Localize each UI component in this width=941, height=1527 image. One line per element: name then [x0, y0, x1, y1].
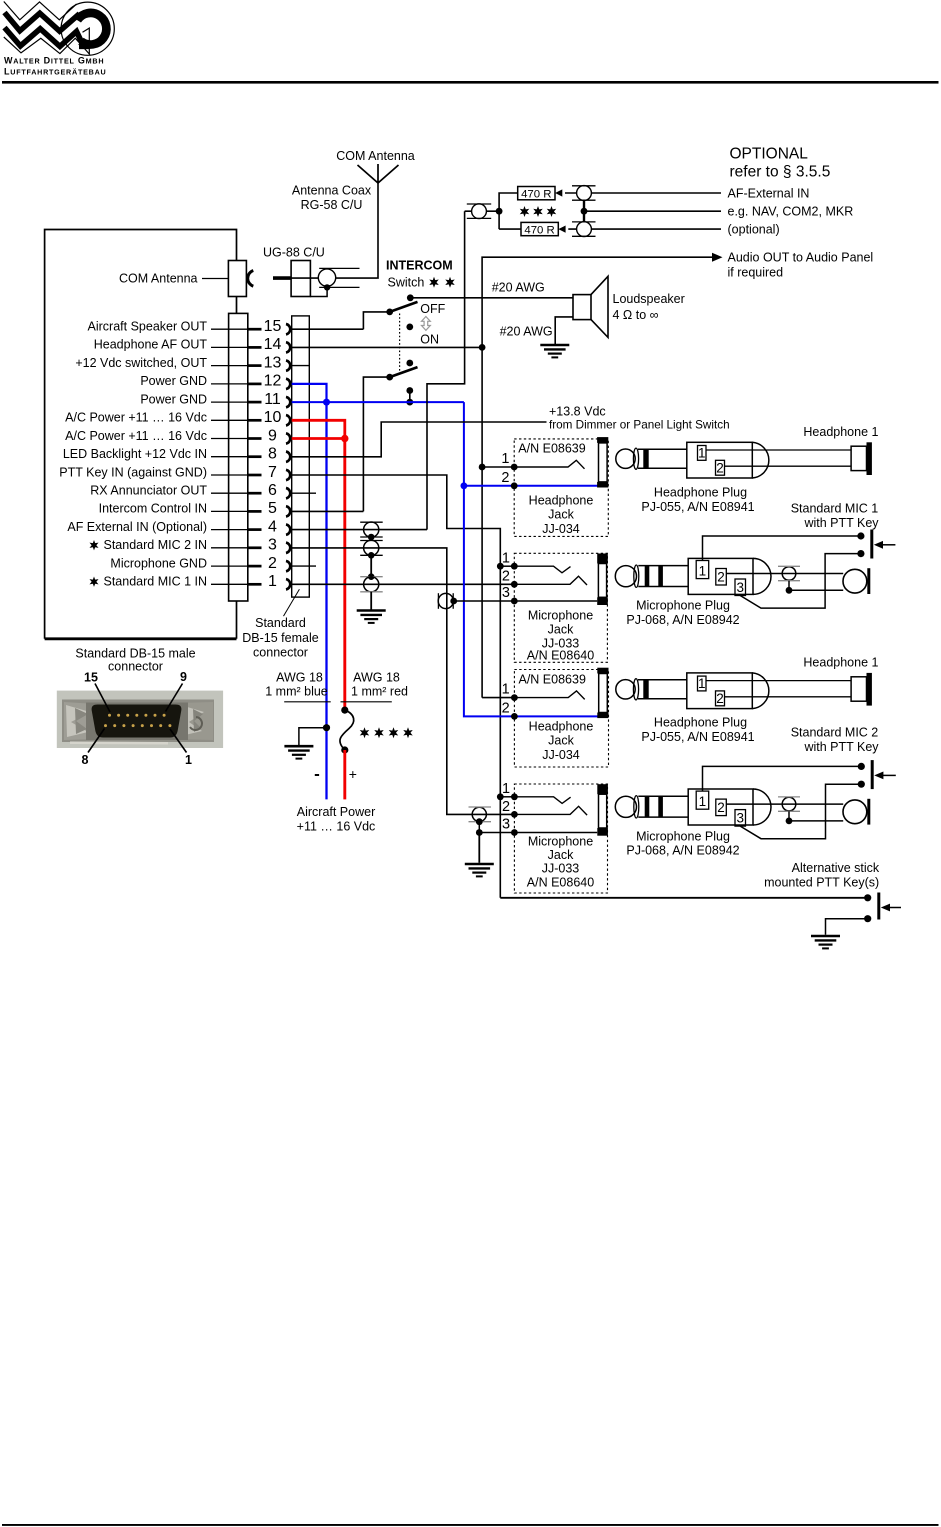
470R node feedthrough circle — [472, 204, 487, 219]
pin 14 socket arc — [286, 342, 290, 352]
PTT key 2 upper dot — [858, 763, 865, 770]
MJ2 ground junction dot — [476, 829, 483, 836]
pin 6 socket arc — [286, 488, 290, 498]
svg-text:PJ-055, A/N E08941: PJ-055, A/N E08941 — [641, 730, 754, 744]
pin 3 socket arc — [286, 543, 290, 553]
lower AF wire with feedthrough — [568, 228, 721, 230]
MP2 pin3 wire to PTT — [740, 784, 861, 839]
mic cap plates — [778, 565, 800, 567]
MP1 body cap — [753, 558, 771, 594]
svg-text:9: 9 — [180, 670, 187, 684]
svg-text:Microphone: Microphone — [528, 609, 593, 623]
MP2 shaft — [638, 796, 688, 817]
svg-text:INTERCOM: INTERCOM — [386, 258, 453, 272]
svg-text:Audio OUT to Audio Panel: Audio OUT to Audio Panel — [728, 251, 874, 265]
svg-text:connector: connector — [108, 660, 163, 674]
pin 3 wire down to mic jack 2 — [292, 548, 515, 815]
audio bus junction dot — [479, 464, 486, 471]
pin 13 socket arc — [286, 360, 290, 370]
headphone plug P1 tip — [616, 449, 635, 468]
UG-88 feedthrough circle — [318, 269, 335, 286]
svg-text:Headphone Plug: Headphone Plug — [654, 485, 747, 499]
PTT key 2 press arrow — [882, 774, 895, 776]
resistor lower 470R box — [521, 222, 558, 235]
AF mid wire to right — [584, 210, 721, 212]
pin 12 male pin tick — [248, 383, 262, 386]
svg-text:7: 7 — [268, 464, 277, 481]
svg-text:with PTT Key: with PTT Key — [803, 516, 879, 530]
svg-text:15: 15 — [84, 670, 98, 684]
svg-text:2: 2 — [502, 569, 510, 585]
P1 cord wire 2 — [725, 465, 852, 467]
svg-text:A/N E08640: A/N E08640 — [527, 648, 594, 662]
mic cap circle — [782, 567, 796, 581]
alt PTT ground symbol — [811, 936, 840, 948]
P1 body — [687, 442, 753, 478]
svg-text:2: 2 — [717, 570, 725, 585]
pin 1 male pin tick — [248, 583, 262, 586]
J1 pin 2 contact dot — [511, 482, 518, 489]
svg-text:JJ-033: JJ-033 — [542, 862, 580, 876]
MJ2 pin 3 contact dot — [511, 829, 518, 836]
MP1 ring bands — [645, 566, 650, 587]
svg-text:PTT Key IN (against GND): PTT Key IN (against GND) — [59, 465, 207, 479]
PTT key 1 press arrow — [882, 544, 895, 546]
svg-text:470 R: 470 R — [521, 189, 551, 201]
svg-text:LED Backlight +12 Vdc IN: LED Backlight +12 Vdc IN — [63, 447, 207, 461]
470R branch wires — [499, 193, 521, 229]
svg-text:Headphone: Headphone — [529, 493, 594, 507]
pin 2 male pin tick — [248, 565, 262, 568]
audio node junction dot — [479, 344, 486, 351]
svg-text:Jack: Jack — [548, 623, 574, 637]
logo thick W zigzag 2 — [5, 28, 82, 47]
switch mechanical link (dotted) — [399, 314, 401, 374]
J2 sleeve bottom cap — [597, 713, 608, 719]
MJ2 ground symbol — [465, 864, 494, 876]
J2 sleeve top cap — [597, 668, 608, 674]
header rule — [2, 81, 939, 84]
microphone plug MP2 tip — [615, 796, 636, 817]
pin 10 socket arc — [286, 415, 290, 425]
antenna coax vertical wire — [377, 183, 379, 278]
pin 2 leader line — [211, 565, 248, 567]
audio out arrowhead — [712, 253, 723, 262]
svg-text:Loudspeaker: Loudspeaker — [613, 292, 685, 306]
svg-text:OFF: OFF — [420, 302, 445, 316]
logo thin bottom zigzag — [4, 37, 90, 55]
svg-text:COM Antenna: COM Antenna — [119, 272, 198, 286]
microphone 2 capsule — [843, 800, 867, 824]
wire PTT bus to MJ2 pin 1 — [500, 796, 514, 798]
pin3 cap lower plate — [360, 554, 383, 556]
svg-text:if required: if required — [728, 266, 784, 280]
blue ground bus down to power — [325, 402, 327, 799]
svg-text:A/N E08639: A/N E08639 — [519, 673, 586, 687]
svg-text:12: 12 — [264, 373, 282, 390]
pin 5 male pin tick — [248, 510, 262, 513]
alt PTT button bar — [877, 893, 880, 920]
red wire below fuse — [343, 750, 346, 799]
logo thin outer circle (D outline) — [61, 2, 114, 55]
MP1 tip ring — [634, 565, 639, 587]
P2 insulator band — [643, 680, 648, 699]
P2 tip ring — [633, 679, 638, 700]
MP2 body — [688, 789, 753, 825]
svg-text:Headphone AF OUT: Headphone AF OUT — [94, 338, 208, 352]
pin 12 socket arc — [286, 379, 290, 389]
MJ2 pin 2 spring contact — [514, 806, 587, 815]
J1 sleeve bottom cap — [597, 482, 608, 488]
pin 1 leader line — [211, 583, 248, 585]
svg-text:AWG 18: AWG 18 — [276, 671, 323, 685]
P2 cord wire 1 — [706, 680, 851, 682]
upper AF feedthrough circle — [577, 186, 592, 201]
pin 4 riser to 470R node — [427, 211, 465, 529]
pin 15 wire to switch — [292, 328, 364, 330]
DB-15 photo shell shadow — [86, 703, 188, 741]
P2 terminal 2 box — [716, 691, 725, 706]
P2 body cap — [752, 673, 769, 709]
pin 15 male pin tick — [248, 328, 262, 331]
PTT key 1 upper dot — [857, 532, 864, 539]
male connector strip — [229, 313, 248, 601]
svg-text:9: 9 — [268, 427, 277, 444]
MJ2 feedthrough capacitor on MIC2 bus — [472, 807, 486, 821]
pin3 cap upper plate — [360, 540, 383, 542]
COM antenna connector mating arc — [248, 271, 254, 287]
power ground wire — [299, 728, 327, 745]
J1 sleeve body — [599, 443, 608, 482]
pin 8 leader line — [211, 456, 248, 458]
logo thick D ring — [77, 13, 106, 45]
microphone 1 capsule — [843, 569, 867, 593]
4 stars fuse note — [360, 727, 370, 738]
MJ1 cap tap dot — [450, 598, 457, 605]
svg-text:Standard MIC 2 IN: Standard MIC 2 IN — [103, 538, 207, 552]
MJ2 pin 1 contact dot — [511, 793, 518, 800]
MP1 terminal 3 box — [735, 579, 746, 596]
pole 2 ON contact dot — [406, 387, 413, 394]
svg-text:LUFTFAHRTGERÄTEBAU: LUFTFAHRTGERÄTEBAU — [4, 67, 106, 77]
svg-text:1 mm² red: 1 mm² red — [351, 685, 408, 699]
svg-text:15: 15 — [264, 318, 282, 335]
MJ1 pin 3 contact dot — [511, 598, 518, 605]
svg-text:RG-58 C/U: RG-58 C/U — [301, 198, 363, 212]
wire audio bus to J2 pin 1 — [482, 697, 514, 699]
pole 2 OFF contact dot — [406, 360, 413, 367]
pin 7 wire to PTT bus — [292, 475, 501, 898]
microphone 1 plate — [867, 568, 870, 594]
logo D inner notch — [83, 28, 90, 54]
MJ1 sleeve bottom cap — [597, 597, 608, 605]
MJ2 sleeve bottom cap — [597, 828, 608, 836]
intercom switch pole 2 lever — [390, 367, 418, 377]
svg-text:3: 3 — [736, 580, 744, 595]
svg-text:refer to § 3.5.5: refer to § 3.5.5 — [730, 164, 831, 181]
headphone jack J1 dashed box — [514, 439, 608, 537]
svg-text:#20 AWG: #20 AWG — [500, 324, 553, 338]
svg-text:Microphone GND: Microphone GND — [110, 556, 207, 570]
junction dot on blue bus — [406, 399, 413, 406]
svg-text:Headphone 1: Headphone 1 — [803, 425, 878, 439]
pin 3 leader line — [211, 547, 248, 549]
svg-text:1: 1 — [699, 564, 707, 579]
svg-text:A/C Power +11 … 16 Vdc: A/C Power +11 … 16 Vdc — [65, 429, 207, 443]
pin 3 male pin tick — [248, 546, 262, 549]
470R node plate lines — [467, 203, 491, 205]
svg-text:13: 13 — [264, 354, 282, 371]
loudspeaker horn — [591, 276, 608, 337]
DB-15 photo bracket plates — [64, 702, 96, 740]
MP1 pin3 wire to PTT — [740, 554, 861, 609]
svg-text:Power GND: Power GND — [140, 392, 207, 406]
fuse S-curve — [340, 710, 354, 750]
PTT key 2 lower dot — [858, 781, 865, 788]
svg-text:10: 10 — [264, 409, 282, 426]
svg-text:A/N E08640: A/N E08640 — [527, 875, 594, 889]
pin1 cap lower plate — [360, 591, 383, 593]
svg-text:6: 6 — [268, 482, 277, 499]
photo leader 15 — [95, 684, 110, 713]
svg-text:Jack: Jack — [548, 734, 574, 748]
red power bus down — [343, 439, 346, 711]
pin 1 wire to mic jack 1 — [292, 583, 515, 585]
svg-text:Standard: Standard — [255, 616, 306, 630]
P1 tip ring — [633, 448, 638, 469]
pin 9 male pin tick — [248, 437, 262, 440]
power ground symbol — [284, 746, 313, 758]
svg-text:JJ-034: JJ-034 — [542, 522, 580, 536]
mic 2 cap tap dot — [786, 818, 793, 825]
J1 sleeve top cap — [597, 437, 608, 443]
P2 terminal 1 box — [698, 676, 707, 691]
pin 1 label star — [89, 576, 98, 586]
svg-text:Switch: Switch — [388, 276, 425, 290]
PTT bus junction dot at MJ2 — [497, 793, 504, 800]
MJ1 pin 1 break contact — [514, 566, 570, 573]
logo thick W zigzag 1 — [5, 13, 80, 32]
wire cap tap to MJ1 pin 3 — [454, 600, 598, 602]
wire PTT bus to MJ1 pin 1 — [500, 565, 514, 567]
svg-text:Aircraft Power: Aircraft Power — [297, 805, 376, 819]
headphone jack J2 dashed box — [514, 670, 608, 768]
MP1 terminal 2 box — [716, 569, 727, 586]
470R node junction dot — [496, 208, 503, 215]
DB-15 photo background — [57, 691, 223, 748]
MJ1 feedthrough capacitor on MIC2 bus — [438, 593, 453, 608]
svg-text:with PTT Key: with PTT Key — [803, 740, 879, 754]
svg-text:1: 1 — [699, 794, 707, 809]
cap chain ground — [357, 611, 386, 623]
mic 2 return wire — [789, 820, 843, 822]
pin4 cap shield dot — [368, 534, 375, 541]
svg-text:2: 2 — [502, 700, 510, 716]
svg-text:e.g. NAV, COM2, MKR: e.g. NAV, COM2, MKR — [728, 205, 854, 219]
svg-text:3: 3 — [502, 817, 510, 833]
svg-text:OPTIONAL: OPTIONAL — [730, 146, 809, 163]
J2 sleeve body — [599, 674, 608, 713]
pin 3 label star — [89, 540, 98, 550]
MP1 shaft — [638, 566, 688, 587]
MP2 tip ring — [634, 796, 639, 818]
blue bus junction dot at J1 — [461, 482, 468, 489]
lower arrowhead into resistor — [558, 226, 565, 233]
pin 7 socket arc — [286, 470, 290, 480]
audio bus down to headphone jacks — [481, 347, 483, 697]
pole 1 hinge dot — [386, 309, 393, 316]
svg-text:AF-External IN: AF-External IN — [728, 187, 810, 201]
pin 7 male pin tick — [248, 474, 262, 477]
svg-text:3: 3 — [268, 537, 277, 554]
svg-text:PJ-068, A/N E08942: PJ-068, A/N E08942 — [626, 843, 739, 857]
svg-text:1: 1 — [698, 446, 706, 461]
microphone plug MP1 tip — [615, 566, 636, 587]
P2 body — [687, 673, 753, 709]
MJ2 pin 1 break contact — [514, 797, 570, 804]
pin 10 male pin tick — [248, 419, 262, 422]
svg-text:Headphone 1: Headphone 1 — [803, 655, 878, 669]
svg-text:mounted PTT Key(s): mounted PTT Key(s) — [764, 876, 879, 890]
svg-text:WALTER DITTEL GMBH: WALTER DITTEL GMBH — [4, 56, 104, 66]
svg-text:Microphone Plug: Microphone Plug — [636, 829, 730, 843]
svg-text:5: 5 — [268, 500, 277, 517]
svg-text:AWG 18: AWG 18 — [353, 671, 400, 685]
svg-text:1: 1 — [501, 451, 509, 467]
loudspeaker return wire — [555, 317, 573, 344]
pin1 cap upper plate — [360, 576, 383, 578]
pin 2 stub wire — [292, 565, 316, 567]
P1 body cap — [752, 442, 769, 478]
pin 14 male pin tick — [248, 346, 262, 349]
up-down arrow glyph — [422, 317, 431, 331]
wire switch pole1 OFF to loudspeaker — [410, 297, 573, 299]
wire to MJ2 pin 3 — [479, 832, 597, 834]
mic 2 cap plates — [778, 796, 800, 798]
mic cap tap dot — [786, 587, 793, 594]
svg-text:2: 2 — [502, 799, 510, 815]
svg-text:DB-15 female: DB-15 female — [242, 631, 318, 645]
P2 cord wire 2 — [725, 696, 852, 698]
intercom switch pole 1 lever — [390, 302, 418, 312]
microphone jack MJ1 dashed box — [514, 553, 607, 662]
alternative PTT feed wire — [500, 897, 867, 899]
J1 pin 1 contact dot — [511, 464, 518, 471]
3 stars between resistors — [520, 206, 530, 217]
P1 shaft — [638, 449, 687, 468]
MP1 body — [688, 558, 753, 594]
svg-text:AF External IN (Optional): AF External IN (Optional) — [67, 520, 207, 534]
upper AF plate lines — [572, 185, 596, 187]
svg-text:Microphone: Microphone — [528, 835, 593, 849]
J1 pin 1 spring contact — [514, 460, 584, 469]
svg-text:PJ-055, A/N E08941: PJ-055, A/N E08941 — [641, 500, 754, 514]
microphone jack MJ2 dashed box — [514, 784, 607, 893]
svg-text:11: 11 — [264, 391, 281, 408]
pin 1 socket arc — [286, 579, 290, 589]
svg-text:from Dimmer or Panel Light Swi: from Dimmer or Panel Light Switch — [549, 419, 730, 432]
P1 insulator band — [643, 449, 648, 468]
svg-text:14: 14 — [264, 336, 282, 353]
pin 14 wire to audio node — [292, 346, 482, 348]
photo leader 1 — [170, 729, 187, 753]
pin 6 stub wire — [292, 492, 316, 494]
pin 15 leader line — [211, 328, 248, 330]
MP2 terminal 2 box — [716, 799, 727, 816]
radio unit box bottom edge — [45, 637, 237, 640]
svg-text:1: 1 — [185, 753, 192, 767]
pin 9 red wire — [292, 437, 345, 440]
svg-text:-: - — [314, 765, 320, 784]
svg-text:Power GND: Power GND — [140, 374, 207, 388]
pole 2 feed wire to pin 5 — [363, 377, 389, 511]
mic 2 cap circle — [782, 797, 796, 811]
pole 2 ON contact wire to ground bus — [409, 391, 411, 403]
svg-text:2: 2 — [501, 470, 509, 486]
MJ2 cap plates — [469, 806, 492, 808]
svg-text:COM Antenna: COM Antenna — [336, 149, 415, 163]
photo leader 9 — [166, 684, 183, 712]
pin 10 red wire — [292, 420, 345, 438]
radio unit box — [45, 230, 237, 639]
power ground junction dot — [323, 724, 330, 731]
female connector box — [292, 316, 310, 597]
470R mix node wire — [465, 210, 500, 212]
mic cap link wire — [788, 581, 790, 591]
svg-text:+: + — [349, 766, 357, 782]
svg-text:Standard MIC 1 IN: Standard MIC 1 IN — [103, 575, 207, 589]
pin 11 male pin tick — [248, 401, 262, 404]
wire audio bus to J1 pin 1 — [482, 466, 514, 468]
svg-text:JJ-034: JJ-034 — [542, 748, 580, 762]
J2 pin 1 contact dot — [511, 694, 518, 701]
MJ1 sleeve body — [598, 564, 606, 598]
svg-text:Microphone Plug: Microphone Plug — [636, 599, 730, 613]
blue wire to J1 sleeve — [464, 485, 599, 487]
pin 9 socket arc — [286, 433, 290, 443]
UG-88 thick stub — [273, 276, 291, 280]
pin 5 wire to switch pole 2 — [292, 510, 364, 512]
J2 pin 1 spring contact — [514, 691, 584, 700]
pin 2 socket arc — [286, 561, 290, 571]
resistor R upper 470R box — [518, 187, 555, 200]
svg-text:2: 2 — [716, 691, 724, 706]
blue riser to headphone jacks — [463, 402, 465, 486]
cap chain ground wire — [370, 592, 372, 610]
DB-15 photo pins bottom row — [104, 724, 171, 727]
pin 6 male pin tick — [248, 492, 262, 495]
svg-text:PJ-068, A/N E08942: PJ-068, A/N E08942 — [626, 613, 739, 627]
COM antenna symbol — [358, 164, 399, 183]
audio out wire — [482, 257, 713, 347]
MJ1 pin 2 spring contact — [514, 576, 587, 585]
pin 13 leader line — [211, 365, 248, 367]
pin 6 leader line — [211, 492, 248, 494]
MP1 terminal 1 box — [696, 561, 709, 579]
svg-text:1: 1 — [268, 573, 277, 590]
svg-text:470 R: 470 R — [524, 225, 554, 237]
MJ2 sleeve body — [599, 794, 607, 828]
photo leader 8 — [88, 729, 105, 753]
svg-text:+12 Vdc switched, OUT: +12 Vdc switched, OUT — [75, 356, 207, 370]
svg-text:A/C Power +11 … 16 Vdc: A/C Power +11 … 16 Vdc — [65, 411, 207, 425]
svg-text:(optional): (optional) — [728, 223, 780, 237]
MP2 terminal 1 box — [696, 791, 709, 809]
svg-text:1: 1 — [502, 550, 510, 566]
DB-15 photo dark shell — [92, 705, 182, 738]
pin 11 blue wire — [292, 401, 464, 403]
svg-text:ON: ON — [420, 332, 439, 346]
